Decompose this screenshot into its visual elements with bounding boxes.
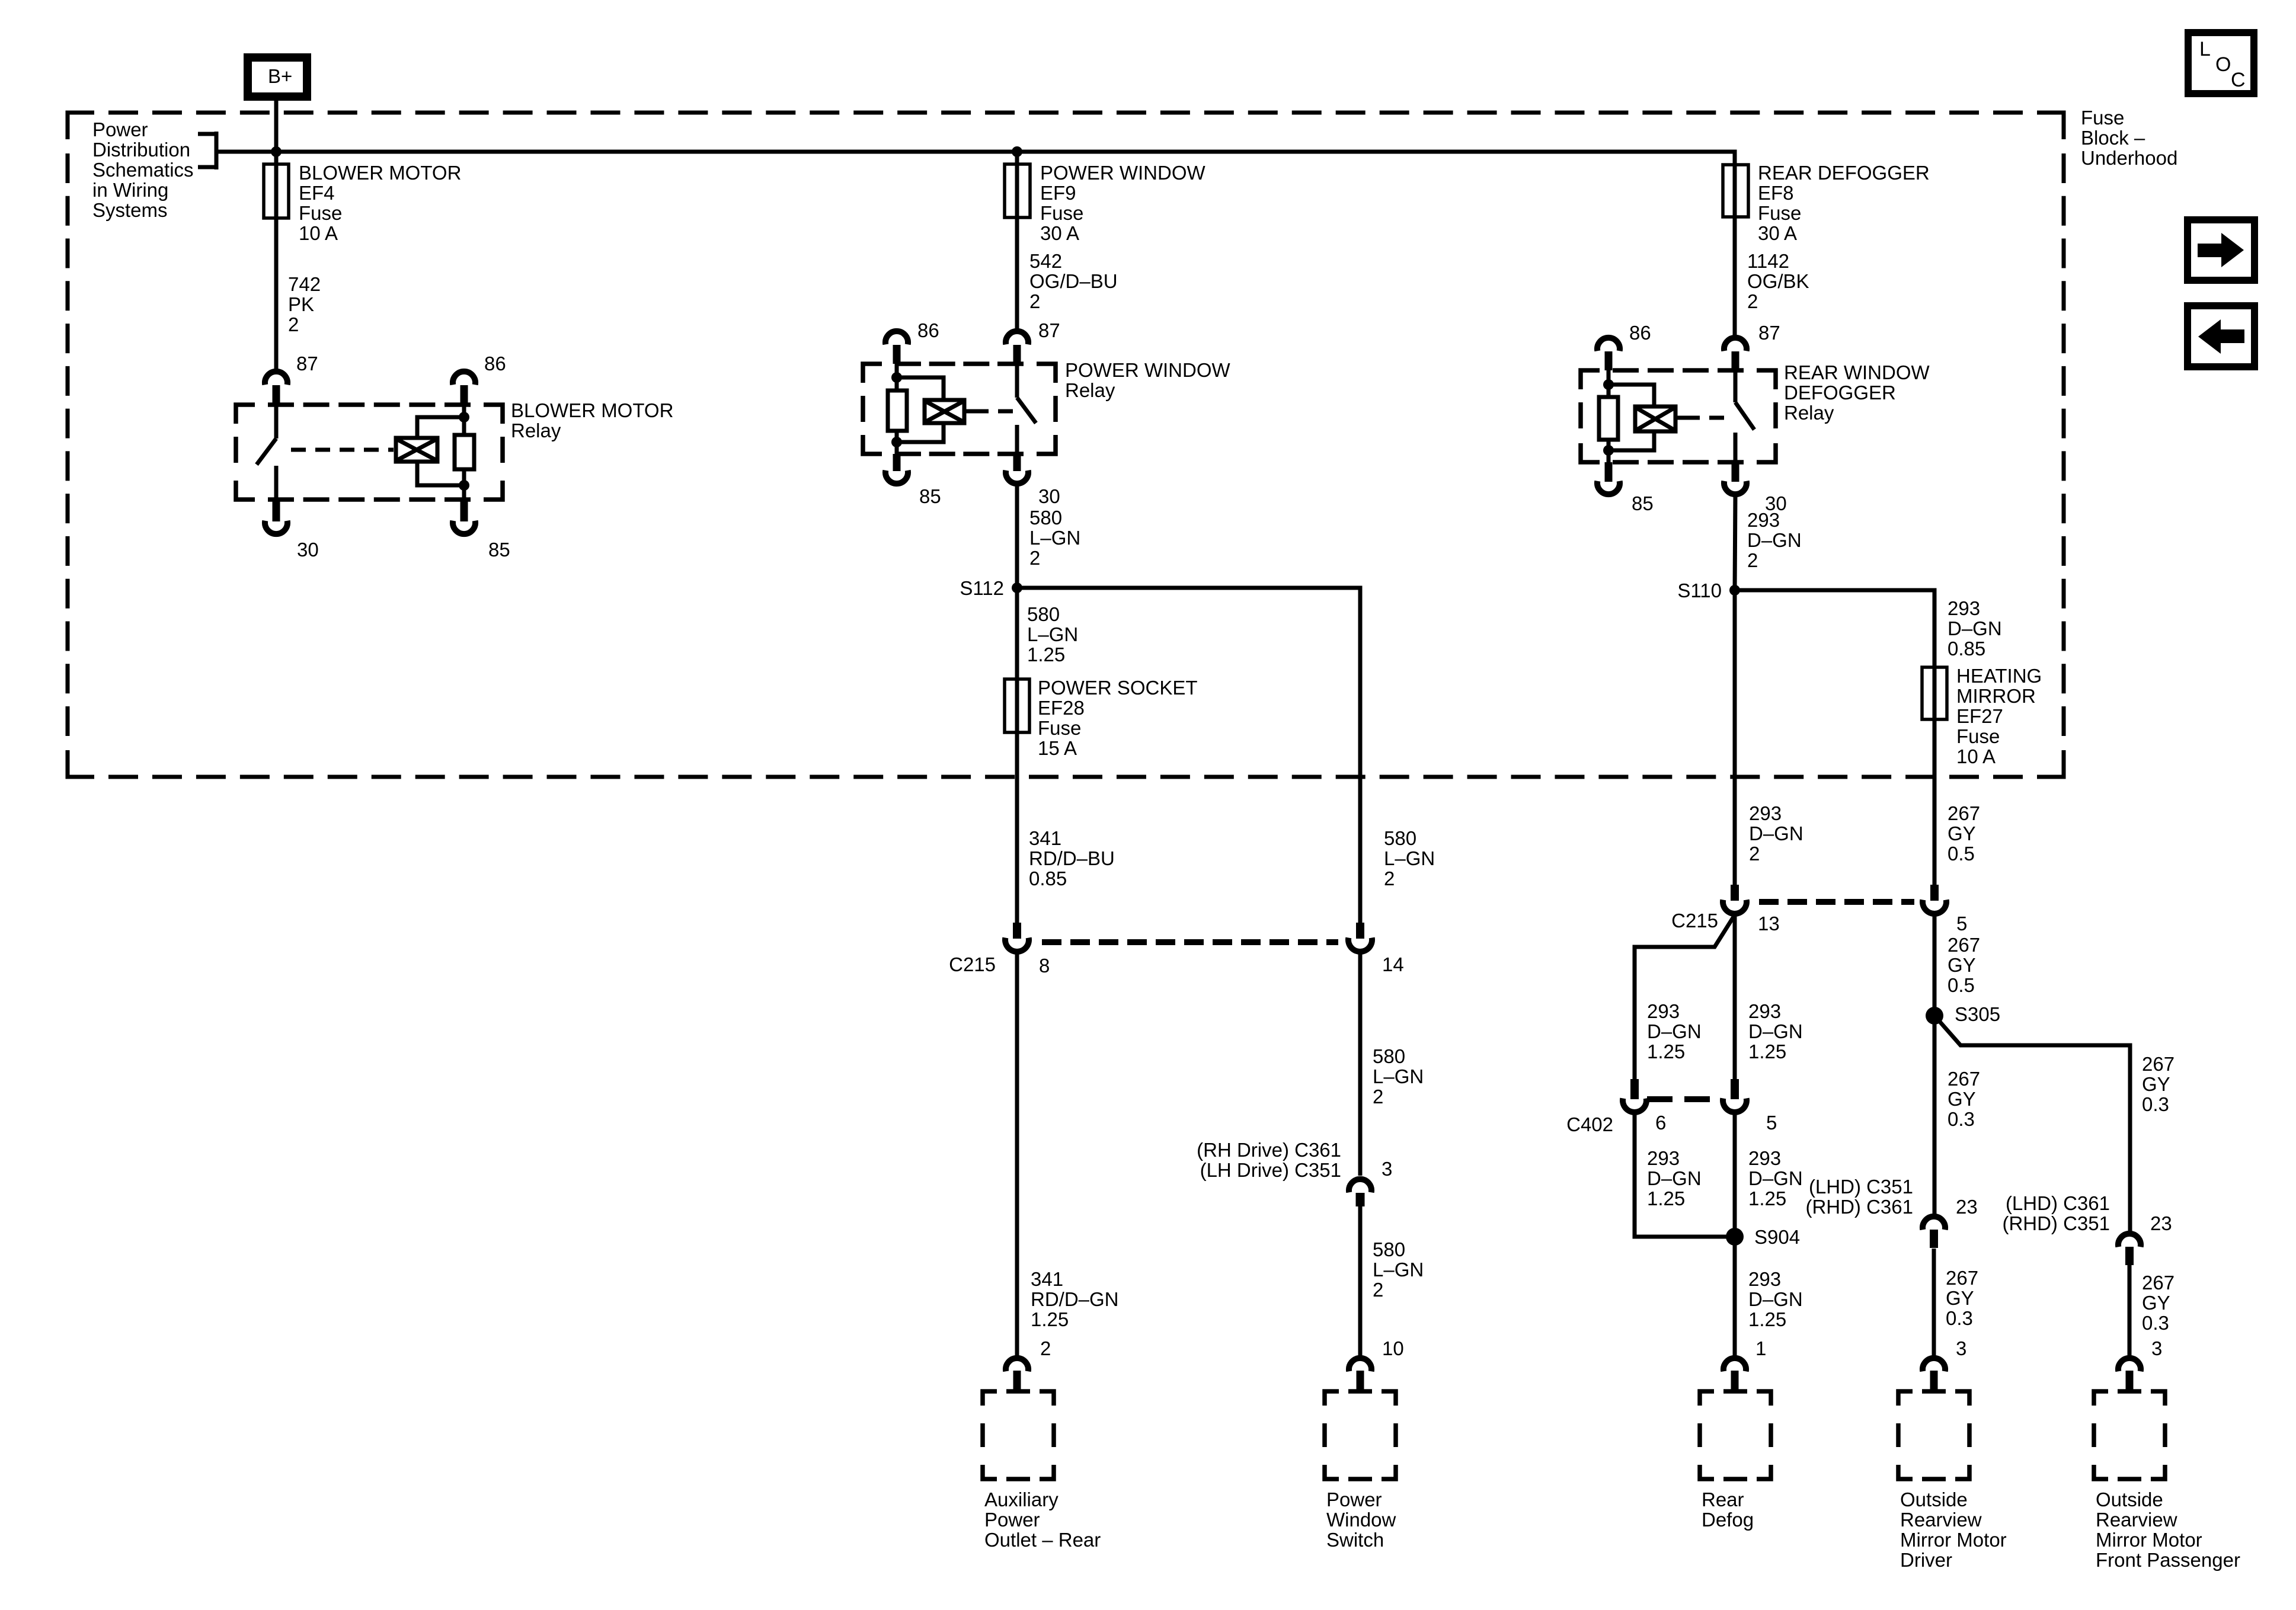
label pin 3 C351 — [1382, 1158, 1392, 1180]
label pin 13 — [1758, 913, 1780, 934]
svg-text:Fuse: Fuse — [1038, 717, 1081, 739]
label pin 2 aux outlet — [1040, 1337, 1051, 1359]
label pin 87 power window — [1038, 319, 1060, 341]
svg-text:15 A: 15 A — [1038, 737, 1077, 759]
label rear defog — [1702, 1489, 1754, 1531]
svg-text:1.25: 1.25 — [1031, 1308, 1069, 1330]
svg-text:GY: GY — [2142, 1073, 2170, 1095]
svg-text:1.25: 1.25 — [1647, 1188, 1685, 1209]
battery feed B+ symbol — [248, 57, 307, 97]
svg-text:HEATING: HEATING — [1956, 665, 2042, 687]
fuse EF4 BLOWER MOTOR 10A — [264, 164, 289, 218]
wire S110 branch to fuse EF27 — [1735, 590, 1934, 667]
svg-text:GY: GY — [1946, 1287, 1974, 1309]
svg-text:Power: Power — [984, 1509, 1040, 1531]
svg-text:D–GN: D–GN — [1748, 1167, 1803, 1189]
svg-text:0.85: 0.85 — [1948, 638, 1985, 660]
svg-text:2: 2 — [1029, 290, 1040, 312]
label S110 — [1677, 580, 1722, 601]
svg-text:580: 580 — [1373, 1045, 1405, 1067]
wire 742 PK 2 — [274, 218, 279, 371]
svg-text:S305: S305 — [1955, 1003, 2000, 1025]
relay power window coil linkage — [974, 409, 1013, 414]
svg-text:293: 293 — [1749, 802, 1782, 824]
relay blower motor - pin 85 terminal — [453, 500, 475, 534]
relay rear defogger - pin 87 terminal — [1724, 338, 1747, 370]
svg-text:293: 293 — [1647, 1000, 1680, 1022]
svg-text:1.25: 1.25 — [1748, 1308, 1786, 1330]
label wire 580 above S112 — [1029, 507, 1080, 569]
svg-text:267: 267 — [2142, 1053, 2175, 1075]
svg-text:87: 87 — [1038, 319, 1060, 341]
wire 341 RD/D-BU to C215 pin 8 — [1015, 732, 1019, 923]
label fuse EF27 — [1956, 665, 2042, 767]
svg-text:(LH Drive) C351: (LH Drive) C351 — [1200, 1159, 1341, 1181]
svg-text:B+: B+ — [268, 65, 292, 87]
relay rear defogger - pin 30 terminal — [1724, 462, 1747, 494]
label fuse EF8 — [1758, 162, 1930, 244]
svg-text:(LHD) C351: (LHD) C351 — [1809, 1176, 1913, 1198]
wire 542 OG/D-BU 2 — [1015, 217, 1019, 331]
svg-text:Switch: Switch — [1326, 1529, 1384, 1551]
svg-text:1.25: 1.25 — [1027, 644, 1065, 665]
relay rear defogger - pin 86 terminal — [1597, 338, 1620, 370]
svg-text:13: 13 — [1758, 913, 1780, 934]
label wire 293 left below C402 — [1647, 1147, 1702, 1209]
label pin 23 passenger — [2150, 1212, 2172, 1234]
svg-text:30 A: 30 A — [1758, 222, 1797, 244]
svg-text:0.3: 0.3 — [1948, 1108, 1975, 1130]
svg-text:Auxiliary: Auxiliary — [984, 1489, 1059, 1510]
svg-text:in Wiring: in Wiring — [92, 179, 168, 201]
svg-text:Underhood: Underhood — [2081, 147, 2177, 169]
svg-text:(RHD) C351: (RHD) C351 — [2002, 1212, 2110, 1234]
svg-text:293: 293 — [1948, 597, 1980, 619]
svg-text:85: 85 — [488, 539, 510, 561]
label connector LHD C361 passenger — [2002, 1192, 2110, 1234]
label wire 267 0.3 passenger upper — [2142, 1053, 2175, 1115]
svg-text:542: 542 — [1029, 250, 1062, 272]
relay blower motor - pin 30 terminal — [265, 500, 287, 534]
relay blower motor switch contact — [257, 405, 276, 500]
svg-text:Outside: Outside — [1900, 1489, 1968, 1510]
label rear window defogger relay — [1784, 361, 1930, 424]
svg-text:85: 85 — [1632, 492, 1654, 514]
relay rear defogger switch contact — [1735, 370, 1754, 462]
label wire 267 0.3 driver lower — [1946, 1267, 1978, 1329]
label power window switch — [1326, 1489, 1396, 1551]
svg-text:OG/D–BU: OG/D–BU — [1029, 270, 1118, 292]
node junction at EF4 tap — [271, 146, 282, 157]
label wire 580 1.25 — [1027, 603, 1078, 665]
svg-text:0.5: 0.5 — [1948, 974, 1975, 996]
svg-text:BLOWER MOTOR: BLOWER MOTOR — [511, 399, 673, 421]
component box power window switch — [1325, 1391, 1396, 1479]
connector C215 pin 5 — [1923, 885, 1946, 914]
label wire 267 0.3 passenger lower — [2142, 1272, 2175, 1334]
relay power window coil — [891, 364, 974, 447]
bracket to power distribution note — [198, 132, 216, 169]
svg-text:3: 3 — [1382, 1158, 1392, 1180]
relay power window - pin 30 terminal — [1006, 454, 1028, 484]
relay blower motor dashed box — [236, 405, 503, 500]
label S904 — [1754, 1226, 1800, 1248]
component box rear defog — [1700, 1391, 1771, 1479]
wire C402 pin 5 to S904 — [1733, 1113, 1737, 1237]
label wire 580 to switch — [1373, 1238, 1424, 1301]
label pin 87 blower — [296, 353, 318, 375]
svg-text:(RH Drive) C361: (RH Drive) C361 — [1197, 1139, 1341, 1161]
label wire 341 RD/D-BU — [1029, 827, 1115, 889]
svg-text:REAR WINDOW: REAR WINDOW — [1784, 361, 1930, 383]
label wire 341 RD/D-GN — [1031, 1268, 1119, 1330]
connector C351/C361 pin 23 driver — [1923, 1217, 1945, 1248]
svg-text:86: 86 — [484, 353, 506, 375]
svg-text:D–GN: D–GN — [1647, 1167, 1702, 1189]
svg-text:C402: C402 — [1566, 1113, 1613, 1135]
svg-text:REAR DEFOGGER: REAR DEFOGGER — [1758, 162, 1930, 184]
svg-text:293: 293 — [1748, 1268, 1781, 1290]
wire 341 RD/D-GN to aux outlet — [1015, 952, 1019, 1356]
wire C215 pin 5 to S305 — [1933, 914, 1937, 1016]
svg-text:POWER WINDOW: POWER WINDOW — [1065, 359, 1230, 381]
label S112 — [960, 577, 1004, 599]
svg-text:87: 87 — [1758, 322, 1780, 344]
label pin 85 defogger — [1632, 492, 1654, 514]
label fuse block underhood — [2081, 107, 2177, 169]
relay blower motor - pin 87 terminal — [265, 372, 287, 405]
svg-text:3: 3 — [1956, 1337, 1966, 1359]
label pin 87 defogger — [1758, 322, 1780, 344]
label pin 5 C215 — [1956, 913, 1967, 934]
connector pin 2 into aux outlet — [1006, 1358, 1028, 1391]
svg-text:Power: Power — [92, 119, 148, 140]
legend LOC box — [2188, 33, 2254, 94]
wire passenger connector to mirror motor — [2128, 1265, 2132, 1356]
label pin 14 — [1382, 953, 1404, 975]
svg-text:267: 267 — [1946, 1267, 1978, 1289]
svg-text:D–GN: D–GN — [1749, 822, 1803, 844]
legend arrow prev box — [2188, 306, 2255, 367]
label pin 30 defogger — [1765, 492, 1787, 514]
svg-text:293: 293 — [1748, 1147, 1781, 1169]
svg-text:Fuse: Fuse — [1956, 725, 2000, 747]
svg-text:2: 2 — [1029, 547, 1040, 569]
connector C215 pin 13 — [1723, 885, 1747, 914]
component box mirror motor passenger — [2094, 1391, 2165, 1479]
label wire 580 below pin 14 — [1373, 1045, 1424, 1108]
svg-text:1.25: 1.25 — [1748, 1041, 1786, 1062]
node S904 — [1726, 1228, 1744, 1246]
label wire 293 0.85 — [1948, 597, 2002, 660]
wire S904 to rear defog — [1733, 1237, 1737, 1356]
svg-text:Mirror Motor: Mirror Motor — [2096, 1529, 2202, 1551]
connector C215 pin 8 — [1005, 923, 1029, 952]
connector pin 3 into driver mirror — [1923, 1358, 1945, 1391]
svg-text:EF8: EF8 — [1758, 182, 1794, 204]
svg-text:S110: S110 — [1677, 580, 1722, 601]
label wire 267 0.5 above S305 — [1948, 934, 1980, 996]
svg-text:267: 267 — [1948, 934, 1980, 956]
label C215 left — [949, 953, 996, 975]
wire 293 from relay 30 to S110 — [1735, 494, 1735, 590]
svg-text:D–GN: D–GN — [1647, 1020, 1702, 1042]
svg-text:Window: Window — [1326, 1509, 1396, 1531]
relay rear defogger dashed box — [1581, 370, 1776, 462]
wire 1142 OG/BK 2 — [1733, 217, 1737, 337]
label connector LHD C351 driver — [1805, 1176, 1913, 1218]
svg-text:Outlet – Rear: Outlet – Rear — [984, 1529, 1101, 1551]
svg-text:580: 580 — [1384, 827, 1416, 849]
svg-text:293: 293 — [1647, 1147, 1680, 1169]
svg-text:5: 5 — [1956, 913, 1967, 934]
svg-text:0.3: 0.3 — [2142, 1093, 2169, 1115]
svg-text:23: 23 — [1956, 1196, 1978, 1218]
wire 580 from relay 30 to S112 — [1015, 484, 1019, 588]
svg-text:86: 86 — [1629, 322, 1651, 344]
resistor inside blower relay — [455, 435, 474, 500]
svg-text:GY: GY — [1948, 954, 1976, 976]
wire 267 fuse EF27 to C215 pin 5 — [1933, 719, 1937, 885]
connector C361/C351 pin 23 passenger — [2118, 1234, 2141, 1265]
label mirror motor passenger — [2096, 1489, 2240, 1571]
svg-text:Power: Power — [1326, 1489, 1382, 1510]
relay rear defogger - pin 85 terminal — [1597, 462, 1620, 494]
relay power window - pin 85 terminal — [885, 454, 908, 484]
svg-text:580: 580 — [1373, 1238, 1405, 1260]
svg-text:Systems: Systems — [92, 199, 168, 221]
svg-text:S904: S904 — [1754, 1226, 1800, 1248]
svg-text:OG/BK: OG/BK — [1747, 270, 1809, 292]
label wire 293 1.25 right above C402 — [1748, 1000, 1803, 1062]
wire S110 to C215 pin 13 — [1733, 590, 1737, 885]
svg-text:0.3: 0.3 — [1946, 1307, 1973, 1329]
svg-text:EF4: EF4 — [299, 182, 335, 204]
label wire 580 above pin 14 — [1384, 827, 1435, 889]
label pin 6 — [1655, 1112, 1666, 1134]
svg-text:D–GN: D–GN — [1948, 617, 2002, 639]
fuse EF9 POWER WINDOW 30A — [1005, 164, 1030, 217]
relay power window - pin 87 terminal — [1006, 331, 1028, 364]
component box auxiliary power outlet — [983, 1391, 1054, 1479]
svg-text:267: 267 — [1948, 802, 1980, 824]
svg-text:10 A: 10 A — [1956, 745, 1996, 767]
label C215 right — [1671, 910, 1718, 932]
label wire 293 right below C402 — [1748, 1147, 1803, 1209]
svg-text:Rear: Rear — [1702, 1489, 1744, 1510]
wire S305 to driver mirror connector — [1933, 1016, 1937, 1214]
svg-text:L–GN: L–GN — [1027, 623, 1078, 645]
svg-text:D–GN: D–GN — [1748, 1288, 1803, 1310]
label wire 1142 — [1747, 250, 1809, 312]
svg-text:8: 8 — [1039, 955, 1050, 977]
label fuse EF28 — [1038, 677, 1198, 759]
label pin 86 defogger — [1629, 322, 1651, 344]
wire S305 branch to passenger mirror — [1934, 1016, 2130, 1231]
svg-text:MIRROR: MIRROR — [1956, 685, 2036, 707]
wire 580 C351 to switch — [1358, 1206, 1363, 1356]
connector pin 10 into window switch — [1349, 1358, 1371, 1391]
svg-text:1.25: 1.25 — [1647, 1041, 1685, 1062]
fuse EF27 HEATING MIRROR 10A — [1922, 667, 1947, 719]
svg-text:D–GN: D–GN — [1748, 1020, 1803, 1042]
svg-text:L–GN: L–GN — [1373, 1065, 1424, 1087]
svg-text:Relay: Relay — [1784, 402, 1834, 424]
svg-text:BLOWER MOTOR: BLOWER MOTOR — [299, 162, 461, 184]
svg-text:267: 267 — [1948, 1068, 1980, 1090]
svg-text:Fuse: Fuse — [299, 202, 342, 224]
label wire 267 0.3 driver upper — [1948, 1068, 1980, 1130]
label pin 85 blower — [488, 539, 510, 561]
label wire 267 0.5 above C215 — [1948, 802, 1980, 865]
svg-text:Schematics: Schematics — [92, 159, 194, 181]
svg-text:C: C — [2231, 69, 2246, 91]
svg-text:10 A: 10 A — [299, 222, 338, 244]
label pin 5 C402 — [1766, 1112, 1777, 1134]
svg-text:O: O — [2215, 53, 2231, 76]
label auxiliary power outlet — [984, 1489, 1101, 1551]
svg-text:341: 341 — [1031, 1268, 1063, 1290]
svg-text:742: 742 — [288, 273, 321, 295]
svg-text:267: 267 — [2142, 1272, 2175, 1294]
svg-text:3: 3 — [2151, 1337, 2162, 1359]
svg-text:GY: GY — [1948, 822, 1976, 844]
wire C402 pin 6 to S904 — [1635, 1113, 1735, 1237]
wire bus corner to fuse EF8 — [1734, 152, 1735, 164]
svg-text:Distribution: Distribution — [92, 139, 190, 161]
svg-text:1142: 1142 — [1747, 250, 1789, 272]
node junction at EF9 tap — [1012, 146, 1022, 157]
svg-text:EF9: EF9 — [1040, 182, 1076, 204]
label wire 293 to pin 13 — [1749, 802, 1803, 865]
svg-text:L–GN: L–GN — [1029, 527, 1080, 549]
svg-text:2: 2 — [1373, 1086, 1383, 1108]
relay rear defogger coil — [1603, 370, 1685, 456]
node S110 — [1729, 585, 1740, 596]
label pin 86 power window — [917, 319, 939, 341]
connector C402 pin 5 — [1723, 1079, 1747, 1112]
svg-text:2: 2 — [1747, 290, 1758, 312]
svg-text:6: 6 — [1655, 1112, 1666, 1134]
wire 580 pin14 to C351 — [1358, 952, 1363, 1176]
label blower motor relay — [511, 399, 673, 441]
svg-text:1: 1 — [1755, 1337, 1766, 1359]
svg-text:GY: GY — [2142, 1292, 2170, 1314]
relay power window switch contact — [1017, 364, 1036, 454]
label pin 8 — [1039, 955, 1050, 977]
connector pin 1 into rear defog — [1723, 1358, 1746, 1391]
bus wire from power distribution to fuses — [216, 150, 1735, 154]
wire pin 13 diagonal branch to C402 pin 6 — [1635, 915, 1735, 1080]
label C402 — [1566, 1113, 1613, 1135]
connector C215 right dotted line — [1759, 899, 1914, 905]
svg-text:293: 293 — [1748, 1000, 1781, 1022]
svg-text:Outside: Outside — [2096, 1489, 2163, 1510]
svg-text:(RHD) C361: (RHD) C361 — [1805, 1196, 1913, 1218]
svg-text:Mirror Motor: Mirror Motor — [1900, 1529, 2007, 1551]
label pin 3 driver mirror — [1956, 1337, 1966, 1359]
svg-text:Block –: Block – — [2081, 127, 2145, 149]
label S305 — [1955, 1003, 2000, 1025]
svg-text:0.5: 0.5 — [1948, 843, 1975, 865]
svg-text:580: 580 — [1027, 603, 1060, 625]
svg-text:85: 85 — [919, 485, 941, 507]
label connector C361/C351 RH-LH — [1197, 1139, 1341, 1181]
svg-text:DEFOGGER: DEFOGGER — [1784, 382, 1896, 404]
relay power window dashed box — [863, 364, 1056, 454]
svg-text:293: 293 — [1747, 509, 1780, 531]
svg-text:EF28: EF28 — [1038, 697, 1085, 719]
svg-text:Relay: Relay — [511, 420, 561, 441]
svg-text:(LHD) C361: (LHD) C361 — [2006, 1192, 2110, 1214]
label pin 30 power window — [1038, 485, 1060, 507]
fuse block - underhood dashed outline box — [68, 113, 2064, 777]
label pin 86 blower — [484, 353, 506, 375]
svg-text:2: 2 — [1747, 549, 1758, 571]
svg-text:23: 23 — [2150, 1212, 2172, 1234]
svg-text:PK: PK — [288, 293, 314, 315]
legend arrow next box — [2188, 220, 2255, 280]
svg-text:D–GN: D–GN — [1747, 529, 1802, 551]
svg-text:10: 10 — [1382, 1337, 1404, 1359]
svg-text:RD/D–GN: RD/D–GN — [1031, 1288, 1119, 1310]
wire S112 to fuse EF28 — [1015, 588, 1019, 679]
component box mirror motor driver — [1898, 1391, 1969, 1479]
svg-text:87: 87 — [296, 353, 318, 375]
svg-text:30 A: 30 A — [1040, 222, 1079, 244]
svg-text:RD/D–BU: RD/D–BU — [1029, 847, 1115, 869]
svg-text:2: 2 — [1749, 843, 1760, 865]
svg-text:Front Passenger: Front Passenger — [2096, 1549, 2240, 1571]
connector C215 mating dotted line — [1042, 939, 1338, 945]
connector C402 pin 6 — [1623, 1079, 1646, 1112]
svg-text:S112: S112 — [960, 577, 1004, 599]
svg-text:Rearview: Rearview — [2096, 1509, 2177, 1531]
label wire 293 1.25 left above C402 — [1647, 1000, 1702, 1062]
relay blower motor coil linkage — [291, 448, 394, 452]
label pin 3 passenger mirror — [2151, 1337, 2162, 1359]
label wire 542 — [1029, 250, 1118, 312]
svg-text:2: 2 — [1040, 1337, 1051, 1359]
svg-text:30: 30 — [1038, 485, 1060, 507]
svg-text:C215: C215 — [949, 953, 996, 975]
svg-text:Driver: Driver — [1900, 1549, 1952, 1571]
relay rear defogger coil linkage — [1685, 416, 1725, 420]
wire driver connector to mirror motor — [1932, 1249, 1936, 1356]
svg-text:Relay: Relay — [1065, 379, 1115, 401]
svg-text:0.85: 0.85 — [1029, 868, 1067, 889]
svg-text:EF27: EF27 — [1956, 705, 2003, 727]
connector C402 mating dashed line — [1647, 1096, 1721, 1102]
wire from B+ to fuse EF4 — [274, 101, 279, 164]
svg-text:14: 14 — [1382, 953, 1404, 975]
svg-text:L–GN: L–GN — [1373, 1259, 1424, 1281]
svg-text:0.3: 0.3 — [2142, 1312, 2169, 1334]
resistor inside rear defogger relay — [1599, 397, 1618, 462]
wire bus tap to fuse EF9 — [1015, 152, 1019, 164]
svg-text:Rearview: Rearview — [1900, 1509, 1982, 1531]
svg-text:1.25: 1.25 — [1748, 1188, 1786, 1209]
svg-text:341: 341 — [1029, 827, 1061, 849]
svg-text:L–GN: L–GN — [1384, 847, 1435, 869]
svg-text:L: L — [2199, 38, 2211, 60]
label power window relay — [1065, 359, 1230, 401]
label pin 1 rear defog — [1755, 1337, 1766, 1359]
fuse EF8 REAR DEFOGGER 30A — [1723, 164, 1748, 217]
connector pin 3 into passenger mirror — [2118, 1358, 2141, 1391]
svg-text:2: 2 — [288, 313, 299, 335]
svg-text:30: 30 — [297, 539, 319, 561]
